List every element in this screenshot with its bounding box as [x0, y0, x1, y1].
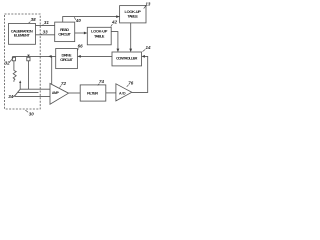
svg-text:30: 30 — [29, 111, 35, 116]
leader 31 — [43, 24, 44, 27]
svg-text:66: 66 — [78, 44, 84, 49]
svg-text:A/D: A/D — [119, 91, 126, 95]
svg-text:FILTER: FILTER — [87, 90, 98, 95]
wire pot mid tap — [18, 92, 39, 94]
arrowhead into controller right — [142, 55, 145, 58]
dashed module box 30 — [5, 14, 41, 109]
svg-text:33: 33 — [43, 30, 49, 35]
svg-text:72: 72 — [61, 81, 67, 86]
A/D converter 76 — [116, 84, 132, 101]
leader 32 — [9, 58, 13, 63]
svg-text:38: 38 — [31, 17, 37, 22]
wire right leg — [28, 61, 30, 89]
leader 76 — [127, 85, 129, 87]
leader 33 — [41, 33, 42, 36]
calibration element box 38 — [9, 24, 36, 45]
look-up table box 42 — [87, 27, 111, 45]
drive circuit box 66 — [56, 49, 78, 69]
leader 34 — [13, 96, 15, 98]
leader 72 — [60, 85, 62, 87]
leader 40 — [74, 17, 75, 20]
terminal square right — [27, 57, 30, 61]
wire drive bus to element — [12, 55, 55, 57]
leader 30 — [25, 110, 28, 112]
leader 14 — [143, 49, 146, 51]
svg-text:TABLE: TABLE — [94, 33, 105, 38]
op-amp AMP 72 — [50, 84, 69, 105]
svg-text:32: 32 — [5, 61, 11, 66]
wire amp out — [69, 92, 81, 94]
leader 38 — [29, 22, 31, 24]
svg-text:CIRCUIT: CIRCUIT — [58, 32, 71, 37]
wire cal to read lower 33 — [36, 34, 55, 36]
wire lookup13 to controller — [130, 23, 132, 51]
wire read top riser — [63, 17, 120, 23]
svg-text:14: 14 — [146, 45, 152, 50]
wire cal to read upper 31 — [36, 25, 55, 27]
wire drop to amp top — [51, 56, 53, 84]
wire A/D out riser — [132, 56, 148, 92]
wire left leg lower — [13, 80, 15, 82]
arrowhead into lookup42 — [84, 32, 87, 35]
arrowhead on bus mid — [48, 55, 51, 58]
potentiometer arrow 34 — [14, 83, 20, 96]
svg-text:AMP: AMP — [52, 91, 60, 95]
svg-text:31: 31 — [44, 20, 50, 25]
arrowhead lookup42 into controller — [117, 49, 120, 52]
svg-text:34: 34 — [8, 94, 14, 99]
svg-text:13: 13 — [145, 1, 151, 6]
svg-text:ELEMENT: ELEMENT — [14, 33, 31, 38]
arrowhead into lookup13 — [116, 15, 119, 18]
wire lookup42 to controller — [111, 32, 118, 52]
look-up table box 13 — [120, 6, 146, 23]
leader 42 — [111, 24, 113, 26]
svg-text:CIRCUIT: CIRCUIT — [60, 57, 73, 62]
leader 74 — [98, 84, 100, 86]
svg-text:TABLE: TABLE — [127, 14, 138, 19]
wire filter out — [106, 92, 116, 94]
wire upper amp input — [20, 88, 50, 90]
leader 13 — [144, 6, 146, 9]
resistor zigzag 32 leg — [13, 71, 16, 81]
svg-text:76: 76 — [128, 81, 134, 86]
svg-text:74: 74 — [99, 79, 105, 84]
wire left leg — [13, 61, 15, 71]
svg-text:42: 42 — [111, 19, 118, 24]
arrow down onto right square — [27, 55, 30, 57]
controller box 14 — [112, 52, 142, 66]
svg-text:CONTROLLER: CONTROLLER — [116, 55, 138, 60]
arrowhead pot up — [19, 80, 21, 83]
read circuit box 40 — [55, 22, 75, 41]
filter box 74 — [80, 85, 106, 101]
arrowhead lookup13 into controller — [129, 49, 132, 52]
wire read to lookup 42 — [75, 32, 87, 34]
wire controller to drive — [78, 55, 112, 57]
wire lower amp input — [14, 95, 50, 97]
arrowhead into drive — [77, 55, 80, 58]
leader 66 — [77, 49, 78, 51]
svg-text:40: 40 — [75, 18, 82, 23]
terminal square left — [12, 57, 15, 61]
